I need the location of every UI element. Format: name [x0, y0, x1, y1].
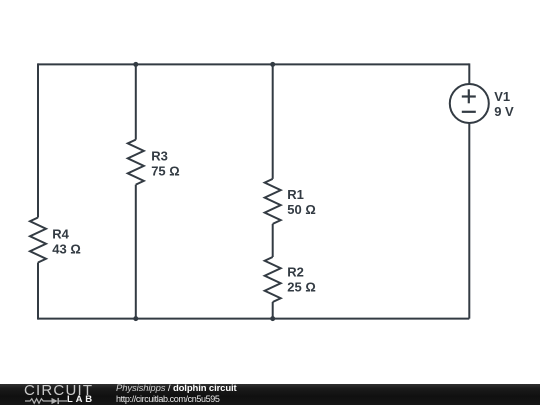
footer url line	[116, 394, 220, 404]
wire: R3 branch, top lead	[135, 64, 137, 139]
footer title line	[116, 383, 237, 394]
wire: right vertical, top lead of V1	[468, 63, 470, 84]
wire: R1/R2 branch, bottom lead	[272, 302, 274, 319]
wire: bottom horizontal net	[38, 318, 469, 320]
svg-text:R4: R4	[52, 226, 69, 241]
junction: bottom node at R3 branch	[133, 316, 138, 321]
CircuitLab logo: resistor+diode glyph	[25, 397, 67, 405]
wire: right vertical, bottom lead of V1	[468, 122, 470, 318]
resistor R2	[265, 257, 281, 302]
V1 plus sign	[462, 89, 476, 103]
CircuitLab logo: LAB wordmark	[67, 396, 95, 404]
wire: top horizontal net	[38, 63, 469, 65]
svg-text:50 Ω: 50 Ω	[287, 202, 316, 217]
wire: between R1 and R2	[272, 224, 274, 257]
CircuitLab logo: CIRCUIT wordmark	[24, 384, 93, 397]
resistor R3	[128, 140, 144, 185]
resistor R4	[30, 218, 46, 263]
junction: bottom node at R1/R2 branch	[270, 316, 275, 321]
resistor R1	[265, 179, 281, 224]
svg-text:R1: R1	[287, 187, 304, 202]
svg-text:R3: R3	[151, 149, 168, 164]
wire: left vertical, top lead of R4	[37, 63, 39, 217]
wire: R1/R2 branch, top lead	[272, 64, 274, 178]
svg-text:R2: R2	[287, 265, 304, 280]
svg-text:9 V: 9 V	[494, 104, 514, 119]
junction: top node at R1/R2 branch	[270, 62, 275, 67]
V1 minus sign	[462, 111, 476, 113]
footer bar	[0, 384, 540, 405]
voltage source V1 circle	[450, 84, 489, 123]
junction: top node at R3 branch	[133, 62, 138, 67]
wire: left vertical, bottom lead of R4	[37, 263, 39, 320]
wire: R3 branch, bottom lead	[135, 185, 137, 319]
svg-text:75 Ω: 75 Ω	[151, 164, 180, 179]
svg-text:43 Ω: 43 Ω	[52, 241, 81, 256]
svg-text:25 Ω: 25 Ω	[287, 280, 316, 295]
svg-text:V1: V1	[494, 89, 510, 104]
